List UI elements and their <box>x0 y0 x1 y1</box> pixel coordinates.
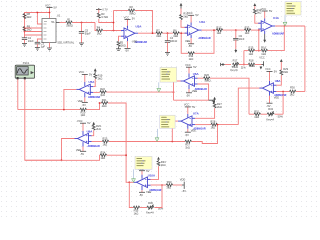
wire left column vertical <box>24 20 26 38</box>
svg-text:2kΩ: 2kΩ <box>161 163 166 167</box>
svg-text:U1: U1 <box>57 14 61 18</box>
svg-text:AD8691AR: AD8691AR <box>88 96 100 99</box>
svg-text:560Ω: 560Ω <box>66 23 72 27</box>
power VEE bar below U2A <box>185 38 194 48</box>
op-amp U3A <box>121 24 147 44</box>
resistor R20 <box>80 108 86 117</box>
wire R18 right end <box>255 64 262 66</box>
power VEE bar below U5A <box>78 97 88 106</box>
node D output junction <box>63 109 65 111</box>
node U2A out junction <box>213 29 215 31</box>
svg-text:5V: 5V <box>192 105 195 109</box>
svg-text:VCC: VCC <box>124 15 130 19</box>
wire pin2 <box>25 27 43 29</box>
svg-text:VCC: VCC <box>79 70 85 74</box>
wire U6A feedback bottom <box>174 84 209 100</box>
wire U7A bottom input row <box>195 124 211 126</box>
svg-text:U4A: U4A <box>273 16 280 20</box>
capacitor C3 <box>35 41 46 48</box>
wire U10A feedback box <box>129 182 133 207</box>
svg-text:R18: R18 <box>249 58 254 62</box>
capacitor C4 <box>165 36 178 43</box>
wire pin4 <box>25 34 43 36</box>
wire between divider resistors <box>255 50 261 52</box>
resistor R24 feedback <box>100 150 106 160</box>
resistor R34 output <box>166 180 172 190</box>
svg-text:U9A: U9A <box>87 129 94 133</box>
wire noninv input down <box>119 36 122 41</box>
svg-text:R6: R6 <box>173 28 177 32</box>
node C6 junction <box>235 29 237 31</box>
wire pin3 <box>25 31 43 33</box>
svg-text:R26: R26 <box>204 73 209 77</box>
svg-text:-5V: -5V <box>139 193 143 197</box>
op-amp U4A <box>258 16 284 36</box>
node pot leg junction <box>282 91 284 93</box>
note comment mid lower <box>160 115 175 128</box>
svg-text:U10A: U10A <box>148 173 156 177</box>
svg-text:5V: 5V <box>195 13 198 17</box>
potentiometer R36 <box>146 201 164 214</box>
op-amp U6A (mirrored) <box>181 72 208 91</box>
svg-text:5V: 5V <box>87 121 90 125</box>
wire pin5 to C3 <box>37 39 42 42</box>
svg-text:R36: R36 <box>148 201 153 205</box>
power VCC arrow above R27 <box>213 97 216 103</box>
resistor R23 <box>92 124 101 131</box>
power down arrow at feedback corner <box>209 100 215 103</box>
wire C2 to ground <box>24 39 26 43</box>
resistor R21 row2 <box>102 98 108 108</box>
potentiometer R17 <box>230 58 246 71</box>
wire U4A noninv from divider <box>258 29 260 51</box>
wire arrow to pot <box>225 64 231 66</box>
power down arrow below row end <box>260 66 263 69</box>
svg-text:1kΩ: 1kΩ <box>173 34 178 38</box>
svg-text:R21: R21 <box>102 98 107 102</box>
wire divider bottom run <box>244 50 248 52</box>
wire R1 to C5 node <box>72 22 95 24</box>
svg-text:1kΩ: 1kΩ <box>261 52 266 56</box>
resistor R5 <box>117 40 126 47</box>
wire VCC rail to R8 and chip <box>25 13 50 20</box>
svg-text:VCC: VCC <box>77 119 83 123</box>
power VCC bar above U5A <box>79 70 93 82</box>
svg-text:0.7V: 0.7V <box>102 8 108 12</box>
wire scope probe B down <box>25 79 62 160</box>
power VEE bar below U9A <box>76 147 86 156</box>
resistor R28 <box>211 119 218 129</box>
svg-text:5V: 5V <box>89 72 92 76</box>
wire U6A top input to R26 <box>198 77 204 79</box>
node C5 junction <box>81 22 83 24</box>
svg-text:U6A: U6A <box>193 72 200 76</box>
svg-text:U3A: U3A <box>136 24 143 28</box>
wire down to C6 <box>235 30 237 38</box>
svg-text:VEE: VEE <box>274 95 279 99</box>
svg-text:XSC1: XSC1 <box>23 61 30 65</box>
wire U7A output left behind note <box>172 121 178 141</box>
svg-text:R25: R25 <box>103 137 108 141</box>
power VCC terminal at row end <box>259 55 265 66</box>
svg-text:-5V: -5V <box>182 189 186 193</box>
wire row2 to I stage leg <box>108 103 134 182</box>
resistor R7 <box>156 28 162 38</box>
wire E output leg <box>238 88 262 125</box>
svg-text:VCC: VCC <box>184 103 190 107</box>
svg-text:R7: R7 <box>156 28 160 32</box>
wire feedback to output <box>135 11 153 34</box>
node pot row junction <box>243 64 245 66</box>
oscilloscope XSC1 <box>15 61 34 79</box>
svg-text:-5V: -5V <box>185 133 189 137</box>
node U10A bottom input junction <box>161 184 163 186</box>
wire C6 to arrow <box>235 40 237 49</box>
resistor R35 feedback <box>133 206 139 215</box>
svg-text:-5V: -5V <box>186 93 190 97</box>
op-amp U2A <box>185 20 211 40</box>
svg-text:1kΩ: 1kΩ <box>217 31 222 35</box>
svg-text:R34: R34 <box>167 180 172 184</box>
power VCC bar above U10A <box>138 167 150 175</box>
resistor R19 <box>94 74 103 81</box>
svg-text:R30: R30 <box>290 85 295 89</box>
wire R9b to U2A inv input <box>181 20 188 27</box>
resistor R37 <box>185 140 191 149</box>
svg-text:2kΩ: 2kΩ <box>96 127 101 131</box>
wire R30 to right vertical <box>296 91 305 93</box>
wire R27 to U7A top input <box>195 108 215 118</box>
svg-text:-5V: -5V <box>82 103 86 107</box>
wire R35 to pot R36 <box>140 207 147 209</box>
svg-text:1kΩ: 1kΩ <box>100 93 105 97</box>
svg-text:U5A: U5A <box>89 80 96 84</box>
svg-text:1kΩ: 1kΩ <box>185 145 190 149</box>
wire U9A bottom input to R25 <box>92 141 103 143</box>
svg-text:1kΩ: 1kΩ <box>97 31 102 35</box>
wire R20 up to row2 <box>87 103 102 110</box>
node G output junction <box>171 141 173 143</box>
op-amp U10A (mirrored) <box>134 173 162 191</box>
svg-text:11%: 11% <box>241 66 247 70</box>
node U4A out junction <box>283 25 285 27</box>
node H output junction <box>61 159 63 161</box>
svg-text:2kΩ: 2kΩ <box>257 11 262 15</box>
wire chip bottom to ground <box>49 43 51 49</box>
svg-text:VEE: VEE <box>185 39 190 43</box>
node G input junction <box>217 124 219 126</box>
wire R26 to pot leg <box>210 78 249 114</box>
svg-text:VCC: VCC <box>261 7 267 11</box>
note comment mid upper <box>160 67 177 82</box>
power VEE bar below U7A <box>185 128 196 136</box>
power VCC arrow above R19 <box>94 68 97 73</box>
wire output down right edge <box>304 26 306 92</box>
wire RST pin from VCC rail <box>37 13 42 25</box>
power VCC bar above U9A <box>77 119 91 131</box>
probe on U9A output row <box>155 129 159 142</box>
svg-text:1kΩ: 1kΩ <box>249 52 254 56</box>
svg-text:3kΩ: 3kΩ <box>166 186 171 190</box>
svg-text:Key=A: Key=A <box>266 118 274 122</box>
resistor R26 <box>204 73 211 83</box>
power VCC bar above U3A <box>124 15 136 25</box>
resistor R29 <box>280 62 289 75</box>
wire divider to output <box>268 26 285 51</box>
svg-text:R2: R2 <box>130 5 134 9</box>
svg-text:56kΩ: 56kΩ <box>129 12 135 16</box>
wire R19 to U5A top input <box>93 79 95 87</box>
power VCC arrow above R29 <box>280 59 283 62</box>
resistor R15 <box>248 46 254 56</box>
resistor R8 <box>23 12 31 19</box>
node U2A noninv junction <box>180 32 182 34</box>
power left arrow node <box>221 63 225 66</box>
resistor R13 <box>244 25 250 35</box>
wire R33 to U10A top input <box>151 166 159 179</box>
wire U5A bottom input to R22 <box>93 91 100 93</box>
wire chip VCC stem <box>49 8 51 19</box>
power VCC bar above U7A <box>184 103 196 114</box>
op-amp U8A (mirrored) <box>259 79 286 97</box>
wire R12 to C6 node <box>223 29 245 31</box>
svg-text:2kΩ: 2kΩ <box>283 70 288 74</box>
svg-text:R22: R22 <box>100 87 105 91</box>
svg-text:U8A: U8A <box>275 79 282 83</box>
resistor R4 <box>96 26 102 36</box>
svg-text:VEE: VEE <box>192 89 197 93</box>
note comment top right <box>285 2 301 15</box>
wire pot to right leg <box>275 113 283 115</box>
svg-text:VCC: VCC <box>185 63 191 67</box>
wire U9A output left and down <box>62 139 75 161</box>
svg-text:Key=A: Key=A <box>146 210 154 214</box>
svg-text:-5V: -5V <box>125 49 129 53</box>
svg-text:5V: 5V <box>54 6 57 10</box>
power output terminal bar <box>180 178 186 194</box>
svg-text:2kΩ: 2kΩ <box>217 105 222 109</box>
svg-text:VEE: VEE <box>76 148 81 152</box>
power VCC bar above U4A <box>261 7 273 19</box>
svg-text:56kΩ: 56kΩ <box>249 64 255 68</box>
svg-text:R31: R31 <box>254 109 259 113</box>
svg-text:5V: 5V <box>193 65 196 69</box>
svg-text:R15: R15 <box>249 46 254 50</box>
svg-text:R1: R1 <box>67 18 71 22</box>
svg-text:AD8691AR: AD8691AR <box>88 145 100 148</box>
ground below 555 <box>47 48 52 51</box>
node junction left col <box>24 31 26 33</box>
power VCC arrow above R23 <box>92 122 95 125</box>
resistor R25 <box>102 137 108 147</box>
resistor R3 <box>97 10 108 19</box>
capacitor C5 <box>79 28 91 35</box>
svg-text:R17: R17 <box>233 58 238 62</box>
svg-text:VEE: VEE <box>191 128 196 132</box>
svg-text:1kΩ: 1kΩ <box>103 142 108 146</box>
svg-text:2kΩ: 2kΩ <box>27 15 32 19</box>
svg-text:-5V: -5V <box>80 152 84 156</box>
wire feedback row <box>25 155 100 160</box>
svg-text:Key=b: Key=b <box>230 68 238 72</box>
ground below C4 <box>165 53 170 56</box>
svg-text:1kΩ: 1kΩ <box>254 115 259 119</box>
svg-text:VCC: VCC <box>187 11 193 15</box>
potentiometer R32 <box>266 107 283 122</box>
probe on U4A output <box>283 15 287 26</box>
svg-text:R12: R12 <box>217 25 222 29</box>
svg-text:100Ω: 100Ω <box>119 43 125 47</box>
wire pot leg up <box>282 92 284 115</box>
svg-text:VEE: VEE <box>78 99 83 103</box>
wire R13 to U4A node <box>251 29 259 31</box>
node VCC junction <box>49 12 51 14</box>
svg-text:R28: R28 <box>211 119 216 123</box>
node R24 row junction <box>125 154 127 156</box>
svg-text:AD8691AR: AD8691AR <box>272 33 284 36</box>
power VEE bar below U8A <box>267 95 280 108</box>
svg-text:2kΩ: 2kΩ <box>98 77 103 81</box>
svg-text:VEE: VEE <box>132 40 137 44</box>
node junction RST <box>37 12 39 14</box>
wire U4A output row <box>275 25 305 27</box>
resistor R30 <box>290 85 297 96</box>
svg-text:50pF: 50pF <box>85 31 91 35</box>
wire R31 to pot <box>261 113 268 115</box>
node row2 junction <box>99 102 101 104</box>
svg-text:VEE: VEE <box>146 190 151 194</box>
svg-text:R32: R32 <box>268 107 273 111</box>
svg-text:R13: R13 <box>245 25 250 29</box>
svg-text:10nF: 10nF <box>28 39 34 43</box>
wire pot to bottom input row <box>155 185 163 208</box>
svg-text:1kΩ: 1kΩ <box>134 211 139 215</box>
resistor R31 <box>254 109 261 119</box>
svg-text:R4: R4 <box>97 26 101 30</box>
wire U2A output row <box>202 29 217 31</box>
svg-text:5V: 5V <box>274 69 277 73</box>
wire U6A output left and down <box>174 81 181 100</box>
power down arrow below C6 <box>234 49 237 53</box>
wire U10A bottom input row <box>151 184 167 186</box>
node stage C input junction <box>258 29 260 31</box>
wire feedback top run <box>114 10 129 12</box>
svg-text:555_VIRTUAL: 555_VIRTUAL <box>58 41 75 45</box>
power VEE bar below U6A <box>186 89 197 98</box>
wire R6 to U2A noninv <box>180 32 188 34</box>
node row1 junction <box>173 91 175 93</box>
power VCC arrow above R14 <box>253 3 256 6</box>
resistor R6 <box>173 28 179 38</box>
resistor R16 <box>261 46 268 56</box>
svg-text:AD8691AR: AD8691AR <box>198 37 210 40</box>
node junction R8 bottom <box>24 27 26 29</box>
svg-text:50%: 50% <box>278 115 284 119</box>
resistor R11 feedback <box>188 52 194 61</box>
note comment bottom <box>135 156 152 169</box>
node divider junction <box>258 50 260 52</box>
wire R7 to C4 node <box>163 32 173 34</box>
svg-text:1kΩ: 1kΩ <box>81 113 86 117</box>
svg-text:-5V: -5V <box>188 44 192 48</box>
wire R24 to row2 leg <box>107 154 126 156</box>
op-amp U1 555 timer body <box>42 14 75 45</box>
svg-text:1μF: 1μF <box>41 44 46 48</box>
power VCC arrow above R33 <box>157 157 160 161</box>
svg-text:1kΩ: 1kΩ <box>245 31 250 35</box>
svg-text:1kΩ: 1kΩ <box>211 125 216 129</box>
capacitor C6 <box>233 34 245 41</box>
svg-text:2kΩ: 2kΩ <box>183 15 188 19</box>
resistor R18 <box>248 58 255 68</box>
ground below C3 <box>35 48 40 51</box>
wire U3A output <box>138 32 156 34</box>
resistor R27 <box>213 102 222 109</box>
wire 555 output <box>56 22 66 24</box>
svg-text:1kΩ: 1kΩ <box>156 34 161 38</box>
wire R14 to U4A inv input <box>255 15 261 24</box>
svg-text:U2A: U2A <box>199 20 206 24</box>
wire row1 to F output leg <box>106 91 173 93</box>
svg-text:5V: 5V <box>269 9 272 13</box>
wire U5A output left and down <box>64 89 76 109</box>
wire R4 to inverting input <box>103 30 121 32</box>
svg-text:VCC: VCC <box>259 55 265 59</box>
wire row to G input leg <box>192 125 218 144</box>
wire scope A row <box>18 109 80 111</box>
power VCC bar (top of 555) <box>45 3 57 9</box>
wire feedback vertical <box>113 11 115 31</box>
wire U2A feedback box <box>181 33 188 53</box>
probe on U10A input <box>132 169 136 182</box>
svg-text:1kΩ: 1kΩ <box>189 57 194 61</box>
wire pot to R18 <box>239 64 248 66</box>
svg-text:VDD: VDD <box>180 178 186 182</box>
resistor R12 <box>216 25 222 35</box>
svg-text:1kΩ: 1kΩ <box>101 156 106 160</box>
resistor R2 <box>128 5 135 16</box>
svg-text:R24: R24 <box>101 150 106 154</box>
node C4 junction <box>167 32 169 34</box>
ground below C2 <box>22 44 27 47</box>
power VEE arrow below U4A <box>263 34 266 43</box>
power VCC bar above U8A <box>265 67 277 81</box>
power VEE bar below U10A <box>139 190 152 197</box>
resistor R1 <box>66 18 73 28</box>
wire R29 down to U8A top input <box>276 75 281 85</box>
svg-text:56kΩ: 56kΩ <box>205 79 211 83</box>
power VCC arrow above R9b <box>180 3 183 9</box>
svg-text:100nF: 100nF <box>170 39 178 43</box>
svg-text:1kΩ: 1kΩ <box>102 104 107 108</box>
svg-text:U7A: U7A <box>193 112 200 116</box>
wire down to C5 <box>81 23 83 32</box>
wire U8A bottom input row <box>276 91 289 93</box>
op-amp U7A (mirrored) <box>178 112 206 131</box>
power 0.7V bar above R3 <box>96 8 108 12</box>
wire feedback to output <box>195 30 215 53</box>
resistor R14 <box>253 6 262 14</box>
ground below R5 <box>116 47 121 51</box>
svg-text:R16: R16 <box>261 46 266 50</box>
svg-text:VCC: VCC <box>45 3 51 7</box>
svg-text:5V: 5V <box>132 16 135 20</box>
node feedback junction on inv input <box>113 30 115 32</box>
wire down to C4 <box>167 33 169 41</box>
power VCC bar above U2A <box>187 11 199 22</box>
node R3 tie <box>113 22 115 24</box>
power VCC bar above U6A <box>185 63 197 73</box>
